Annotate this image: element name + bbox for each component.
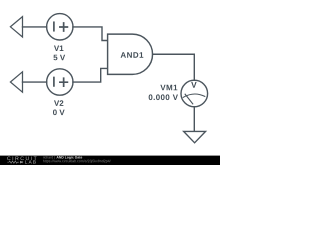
wire input2 to V2 <box>23 81 47 83</box>
voltmeter VM1 circle <box>181 80 208 107</box>
label V2 <box>54 100 63 106</box>
footer author text <box>43 156 55 159</box>
CircuitLab logo resistor zigzag <box>7 161 19 163</box>
wire V1 to AND1 input A <box>73 27 108 41</box>
voltage source V1 <box>47 14 73 40</box>
VM1 meter scale arc <box>183 94 205 97</box>
footer bar <box>0 156 220 165</box>
label V1 <box>54 46 64 52</box>
V2 minus bar <box>53 78 55 86</box>
AND gate AND1 body <box>108 34 153 74</box>
V2 plus sign <box>60 78 68 86</box>
node flag input 2 <box>10 72 22 92</box>
V1 minus bar <box>53 22 55 30</box>
CircuitLab logo word CIRCUIT <box>7 156 36 160</box>
wire input1 to V1 <box>23 26 47 28</box>
label VM1 <box>160 85 177 91</box>
ground symbol <box>184 131 206 142</box>
VM1 meter needle <box>185 94 193 104</box>
value label 5 V <box>53 55 65 61</box>
voltmeter V letter <box>191 82 196 88</box>
node flag input 1 <box>10 17 22 37</box>
CircuitLab logo word LAB <box>25 160 36 163</box>
footer url text <box>43 160 111 163</box>
footer title text <box>57 156 83 159</box>
value label 0.000 V <box>149 94 178 100</box>
voltage source V2 <box>47 69 73 95</box>
label AND1 <box>121 52 144 58</box>
CircuitLab logo diode symbol <box>20 161 23 163</box>
value label 0 V <box>53 110 65 116</box>
wire VM1 to ground <box>193 107 195 132</box>
V1 plus sign <box>60 23 68 31</box>
wire V2 to AND1 input B <box>73 68 108 82</box>
wire AND1 output to voltmeter VM1 <box>153 54 195 80</box>
